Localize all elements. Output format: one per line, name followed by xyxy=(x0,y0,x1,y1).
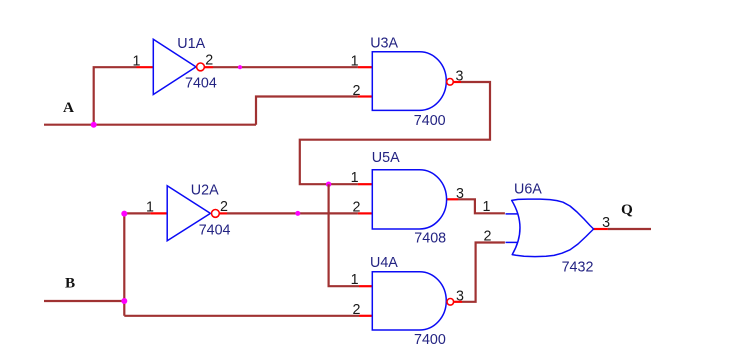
svg-text:2: 2 xyxy=(220,199,228,215)
svg-text:3: 3 xyxy=(602,215,610,231)
svg-text:1: 1 xyxy=(351,170,359,186)
wire U2A output red stub xyxy=(220,212,228,214)
wire U5A pin2 red stub xyxy=(358,212,372,214)
svg-text:7404: 7404 xyxy=(199,223,231,239)
wire B riser up to U2A input xyxy=(124,213,150,315)
or U6A pin1 leg xyxy=(506,213,518,215)
svg-text:2: 2 xyxy=(353,302,361,318)
svg-text:Q: Q xyxy=(621,201,633,218)
inverter U1A triangle xyxy=(153,39,196,94)
wire U5A pin1 red stub xyxy=(358,183,372,185)
nand gate U4A body xyxy=(372,272,446,330)
svg-text:7400: 7400 xyxy=(414,113,446,129)
svg-text:7404: 7404 xyxy=(185,76,217,92)
svg-text:7432: 7432 xyxy=(562,259,594,275)
svg-text:7400: 7400 xyxy=(414,332,446,348)
svg-text:1: 1 xyxy=(133,53,141,69)
svg-text:A: A xyxy=(63,99,74,116)
wire A horizontal lead-in xyxy=(44,124,256,126)
svg-text:7408: 7408 xyxy=(414,230,446,246)
svg-text:2: 2 xyxy=(205,53,213,69)
wire U4A output red stub xyxy=(454,301,462,303)
wire U1A output red stub xyxy=(205,66,213,68)
wire A riser up to U1A input xyxy=(94,67,137,125)
svg-text:1: 1 xyxy=(146,199,154,215)
wire U2A pin1 red stub xyxy=(150,212,167,214)
nand gate U3A body xyxy=(372,52,446,111)
svg-text:U6A: U6A xyxy=(514,182,542,198)
svg-text:3: 3 xyxy=(456,186,464,202)
inverter U1A bubble xyxy=(197,63,205,71)
svg-text:U2A: U2A xyxy=(191,183,219,199)
wire B step to U4A pin2 xyxy=(124,315,359,317)
node junction dot feeding U4A xyxy=(326,182,331,187)
wire U1A output to U3A pin1 xyxy=(213,66,358,68)
svg-text:U4A: U4A xyxy=(370,255,398,271)
svg-text:U3A: U3A xyxy=(370,35,398,51)
svg-text:1: 1 xyxy=(351,53,359,69)
node dot on U1A output wire xyxy=(238,65,242,69)
wire U4A pin2 red stub xyxy=(359,315,372,317)
wire U3A pin1 red stub xyxy=(358,66,372,68)
svg-text:3: 3 xyxy=(456,68,464,84)
wire U5A output red stub xyxy=(447,198,458,200)
wire Q output lead xyxy=(608,228,651,230)
wire vertical down to U4A pin1 xyxy=(329,184,359,286)
inverter U2A triangle xyxy=(167,186,210,241)
wire U6A output red stub xyxy=(594,228,608,230)
wire A step up to U3A pin2 xyxy=(256,97,358,125)
svg-text:1: 1 xyxy=(483,199,491,215)
svg-text:U1A: U1A xyxy=(177,36,205,52)
svg-text:U5A: U5A xyxy=(372,150,400,166)
nand U3A bubble xyxy=(447,79,454,86)
svg-text:B: B xyxy=(65,275,75,292)
wire U4A output to U6A pin2 xyxy=(462,243,505,302)
node A junction dot xyxy=(91,122,97,128)
node dot at U2A input corner xyxy=(121,211,127,217)
wire U4A pin1 red stub xyxy=(359,285,372,287)
nand U4A bubble xyxy=(447,299,454,306)
svg-text:1: 1 xyxy=(351,272,359,288)
svg-text:2: 2 xyxy=(353,83,361,99)
wire U1A pin1 red stub xyxy=(137,66,154,68)
wire B horizontal lead-in xyxy=(44,300,124,302)
node B junction dot xyxy=(121,298,127,304)
wire U3A output loop to U5A pin1 xyxy=(300,82,490,184)
or U6A pin2 leg xyxy=(506,241,518,243)
node dot on U2A output wire xyxy=(295,211,300,216)
wire U2A output to U5A pin2 xyxy=(227,212,358,214)
svg-text:3: 3 xyxy=(456,288,464,304)
wire U5A output to U6A pin1 xyxy=(458,199,505,213)
and gate U5A body xyxy=(372,170,446,229)
wire U3A pin2 red stub xyxy=(358,95,372,97)
or gate U6A body xyxy=(512,199,594,257)
svg-text:2: 2 xyxy=(484,229,492,245)
svg-text:2: 2 xyxy=(353,199,361,215)
inverter U2A bubble xyxy=(212,210,220,218)
wire U3A output red stub xyxy=(453,81,461,83)
